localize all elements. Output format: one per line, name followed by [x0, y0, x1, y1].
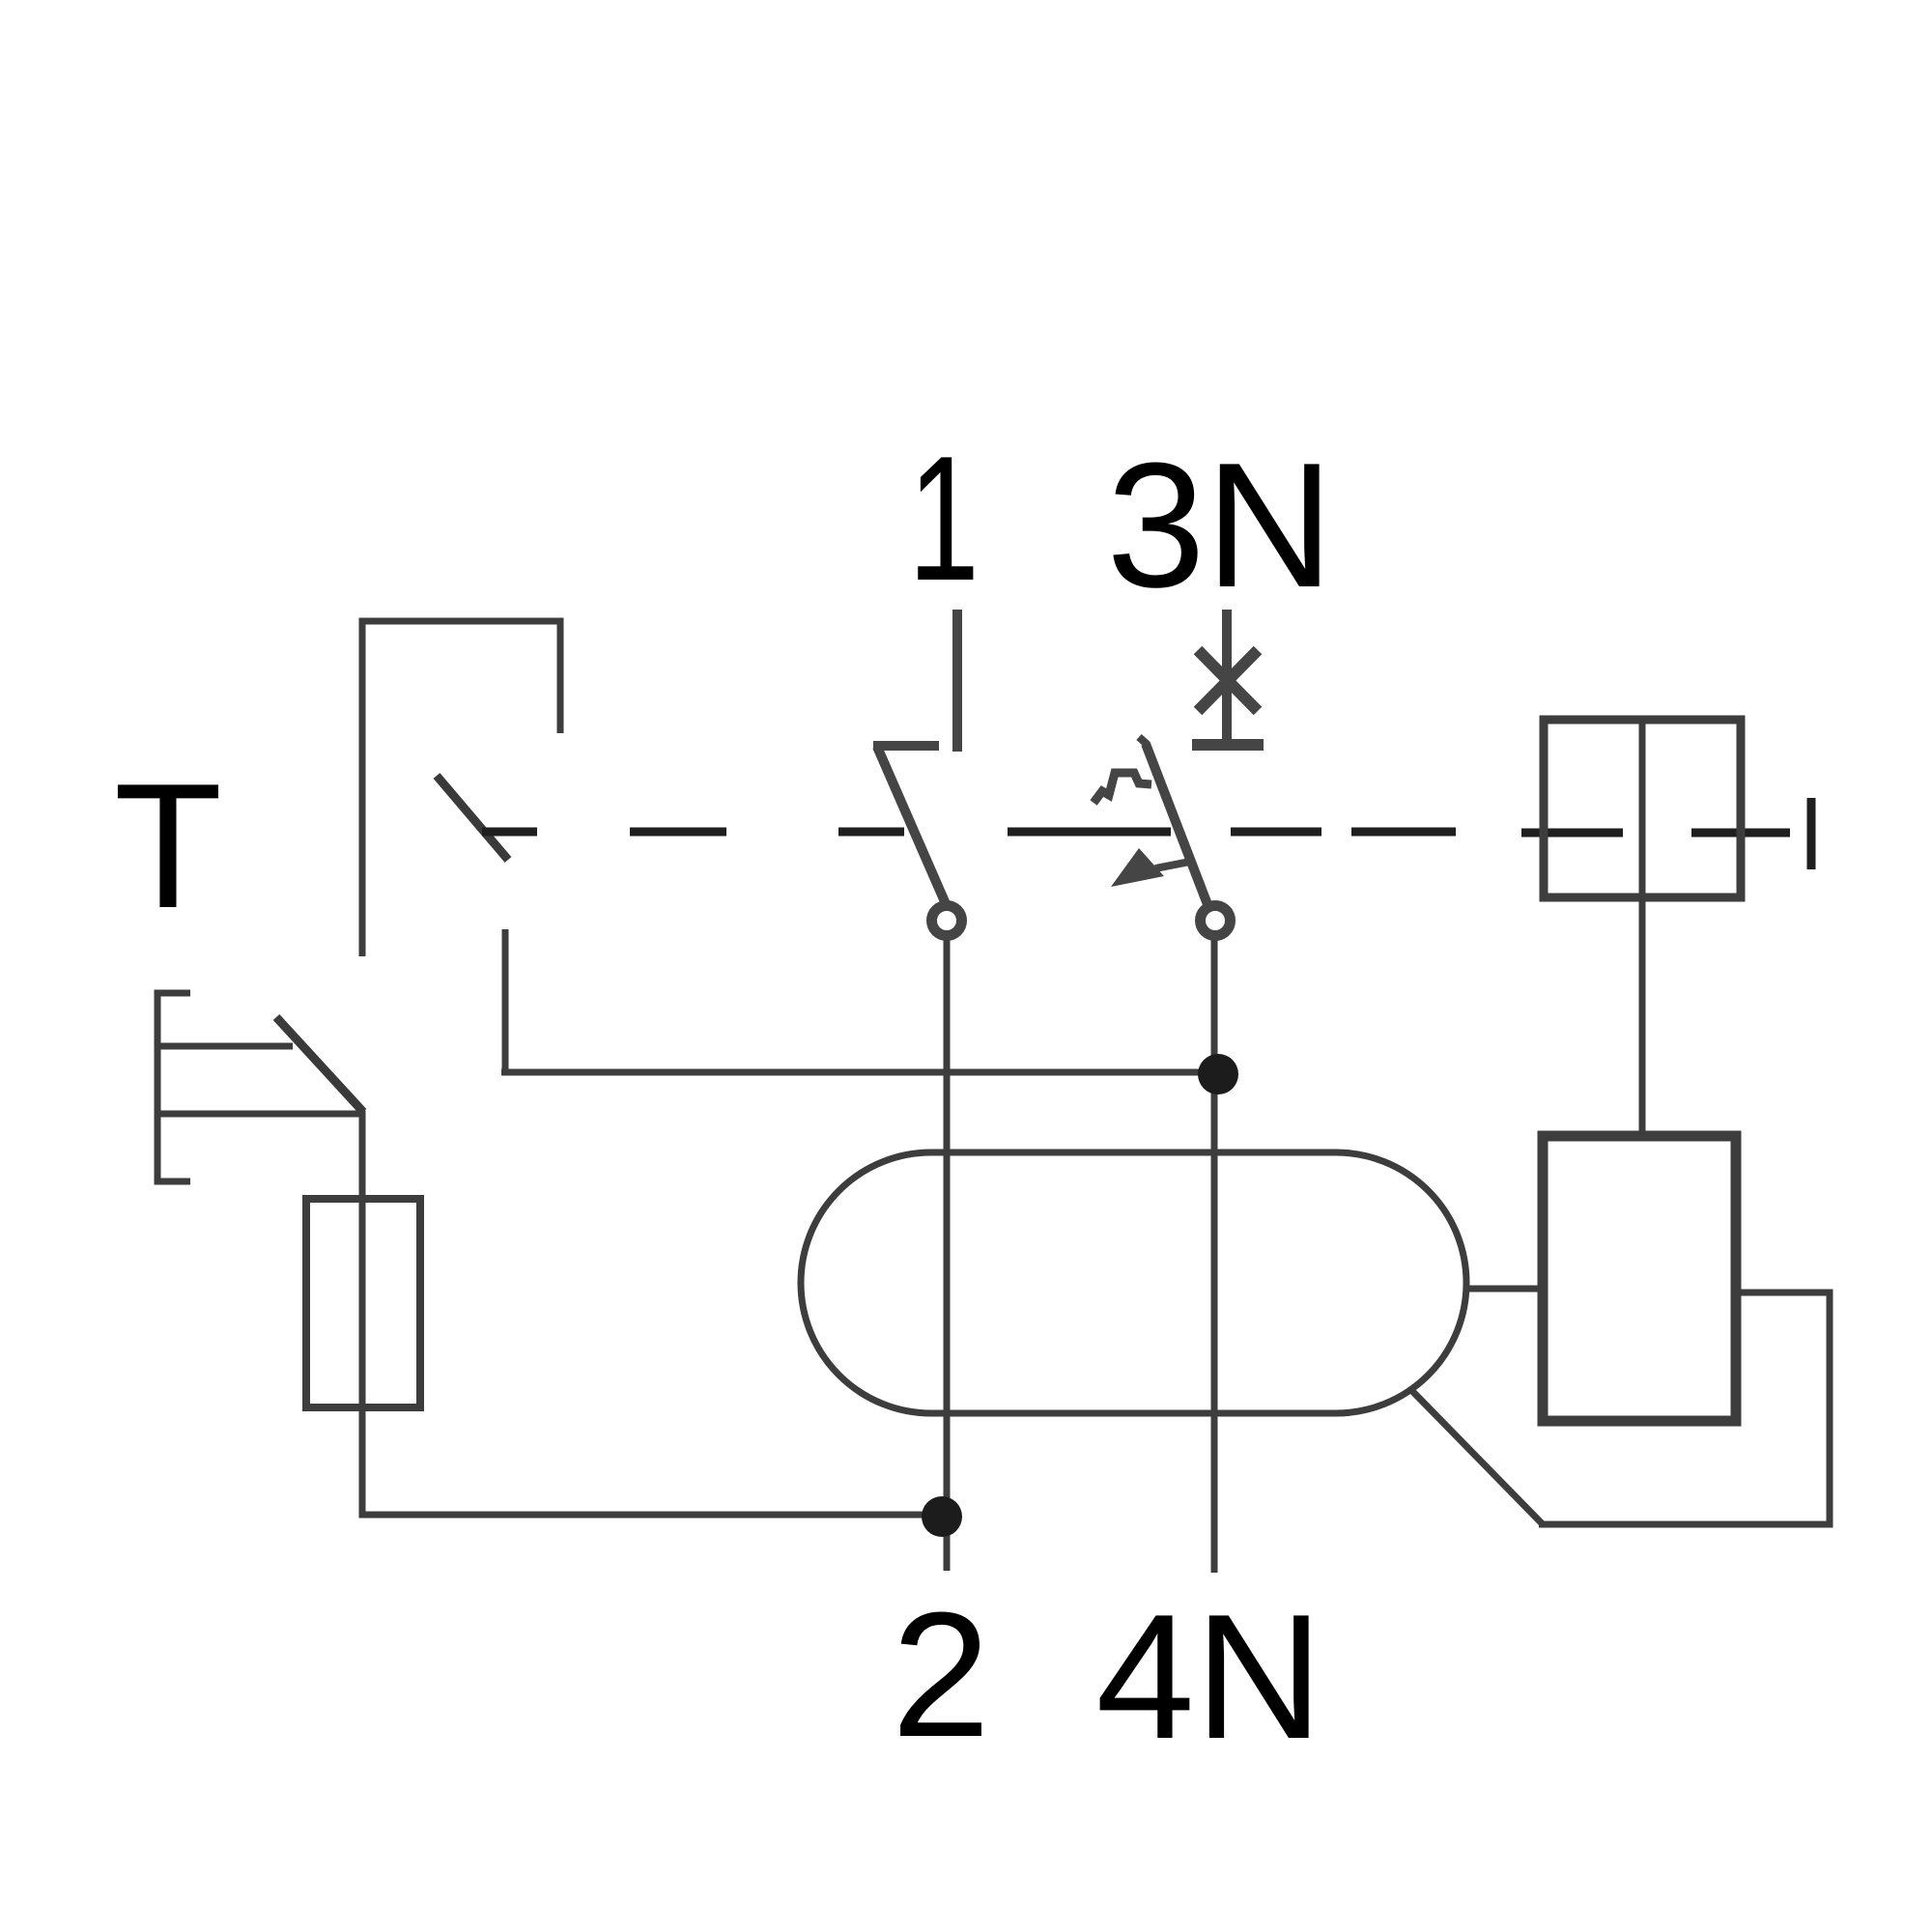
neutral marker X on lead 3N [1198, 650, 1258, 711]
moving contact hinge pole 3N [1201, 906, 1231, 936]
switch test button blade [276, 1017, 363, 1112]
terminal lead 3N [1222, 610, 1232, 740]
switch blade pole 1 [877, 747, 947, 906]
magnetic release arrow [1111, 848, 1164, 887]
relay mechanism center line [1639, 719, 1646, 896]
svg-text:1: 1 [908, 419, 980, 617]
wire test-circuit hook (up and over) [362, 621, 560, 956]
node junction on phase [922, 1496, 962, 1537]
wire CT secondary to trip coil [1464, 1286, 1543, 1293]
wire trip coil return loop [1539, 1293, 1830, 1524]
fixed contact bar pole 1 [873, 741, 939, 751]
svg-text:T: T [114, 746, 222, 945]
fixed contact bar pole 3N [1192, 739, 1264, 751]
wire relay box to trip coil [1639, 896, 1646, 1136]
linkage end bar [1807, 798, 1816, 869]
test button plunger bracket [157, 993, 190, 1181]
wire neutral conductor 3N-4N [1211, 940, 1218, 1573]
current transformer core [801, 1152, 1466, 1413]
resistor test resistor [306, 1199, 420, 1407]
wire test button upper terminal [157, 1043, 293, 1050]
wire test circuit to neutral [501, 1069, 1218, 1076]
svg-text:4N: 4N [1095, 1577, 1322, 1776]
wire CT secondary diagonal [1412, 1391, 1543, 1524]
relay mechanism box [1544, 720, 1741, 897]
switch aux contact blade (upper left) [437, 776, 508, 860]
mechanical linkage dashed line [482, 828, 537, 837]
moving contact hinge pole 1 [932, 906, 962, 936]
svg-text:2: 2 [892, 1575, 990, 1774]
wire phase conductor 1-2 [944, 940, 951, 1571]
thermal release zigzag [1094, 773, 1151, 803]
terminal lead 1 [952, 610, 962, 752]
svg-text:3N: 3N [1106, 425, 1333, 624]
node junction on neutral [1198, 1054, 1238, 1094]
switch blade pole 3N [1146, 744, 1210, 912]
wire aux contact to test node [502, 929, 509, 1075]
trip coil [1543, 1136, 1736, 1421]
wire test button lower terminal to resistor to phase [157, 1114, 942, 1515]
